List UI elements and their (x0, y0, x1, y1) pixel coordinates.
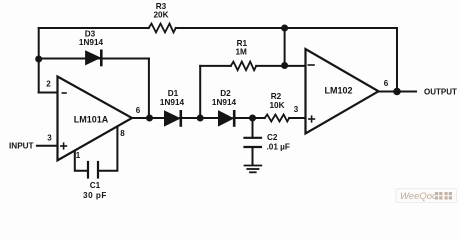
op-amp U2 LM102 triangle (306, 49, 379, 134)
wire pin2 stub (39, 92, 58, 94)
svg-text:3: 3 (47, 134, 52, 143)
node D2-R2 junction (249, 115, 256, 122)
wire top feedback right segment (176, 27, 397, 29)
resistor R1 (231, 62, 256, 71)
U2 minus sign (308, 64, 315, 66)
U1 minus sign (62, 92, 67, 94)
svg-text:1N914: 1N914 (79, 38, 104, 47)
node top wire tap (281, 25, 288, 32)
watermark box (396, 189, 457, 203)
watermark text (400, 191, 452, 202)
node LM101A output (146, 115, 153, 122)
wire INPUT lead (37, 145, 58, 147)
capacitor C1 (88, 162, 98, 178)
wire pin1 stub (75, 151, 88, 171)
node LM102 minus input (281, 62, 288, 69)
label D3 (79, 30, 104, 47)
label C1 (83, 181, 107, 200)
svg-text:10K: 10K (269, 101, 284, 110)
U2 plus sign (308, 115, 315, 122)
svg-text:6: 6 (384, 79, 389, 88)
label R3 (153, 2, 168, 20)
svg-text:1M: 1M (236, 48, 248, 57)
svg-text:30 pF: 30 pF (83, 191, 107, 200)
wire LM102 output (379, 91, 417, 93)
resistor R3 (149, 24, 176, 33)
op-amp U1 LM101A triangle (58, 77, 133, 161)
node junction dots (35, 25, 401, 122)
wire C2 branch vertical (252, 118, 254, 138)
wire LM101A output to D1 (132, 117, 165, 119)
svg-text:D2: D2 (220, 89, 231, 98)
wire D3 branch horizontal (39, 58, 149, 60)
label D1 (160, 89, 185, 107)
svg-text:6: 6 (136, 106, 141, 115)
wire node A vertical up to top wire (284, 28, 286, 66)
svg-text:C1: C1 (90, 181, 101, 190)
wire C2 to ground (252, 147, 254, 165)
diode D1 (165, 110, 181, 127)
svg-text:3: 3 (294, 105, 299, 114)
resistor R2 (265, 115, 290, 122)
svg-text:LM101A: LM101A (74, 115, 109, 125)
svg-text:OUTPUT: OUTPUT (424, 87, 457, 96)
wire right vertical to output node (396, 28, 398, 92)
svg-text:20K: 20K (153, 11, 168, 20)
svg-text:C2: C2 (267, 133, 278, 142)
wire R1 branch horizontal left (200, 65, 231, 67)
label C2 (267, 133, 290, 151)
label D2 (212, 89, 237, 107)
svg-text:.01 µF: .01 µF (267, 142, 290, 151)
svg-text:2: 2 (46, 80, 51, 89)
node D3 tap (35, 56, 42, 63)
diode D3 (86, 50, 102, 67)
wire pin8 stub (98, 127, 117, 171)
wire D1 to D2 (180, 117, 219, 119)
wire D3 branch vertical down (148, 59, 150, 119)
svg-text:8: 8 (120, 129, 125, 138)
wire D2 to R2 (234, 117, 265, 119)
svg-text:WeeQoo: WeeQoo (400, 191, 437, 202)
U1 plus sign (60, 142, 67, 149)
svg-text:INPUT: INPUT (9, 142, 34, 151)
svg-text:1: 1 (76, 151, 81, 160)
wire left vertical from top to pin2 (38, 28, 40, 93)
svg-text:1N914: 1N914 (160, 98, 185, 107)
capacitor C2 (245, 138, 262, 147)
diode D2 (219, 110, 235, 127)
ground (245, 166, 262, 173)
svg-text:LM102: LM102 (324, 86, 352, 96)
wire R2 to LM102 pin3 (289, 117, 305, 119)
label R1 (236, 39, 248, 56)
node D1-D2 junction (197, 115, 204, 122)
svg-text:1N914: 1N914 (212, 98, 237, 107)
svg-text:D1: D1 (168, 89, 179, 98)
label R2 (269, 92, 284, 110)
wire R1 branch vertical (199, 66, 201, 118)
wire R1 to LM102 minus input (256, 65, 305, 67)
wire top feedback left segment (39, 27, 149, 29)
node output (393, 88, 401, 96)
